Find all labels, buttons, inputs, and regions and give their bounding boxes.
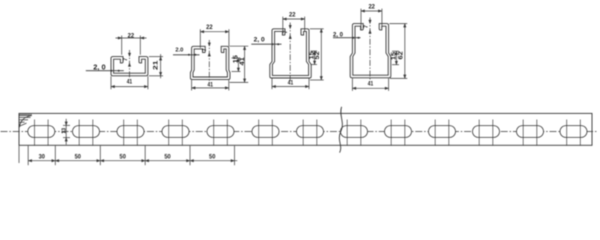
svg-text:2.0: 2.0 xyxy=(175,48,183,54)
svg-text:41: 41 xyxy=(368,82,374,88)
svg-text:52: 52 xyxy=(315,51,321,60)
svg-text:22: 22 xyxy=(206,24,213,31)
svg-text:30: 30 xyxy=(39,154,46,161)
svg-text:7: 7 xyxy=(283,30,289,33)
svg-text:22: 22 xyxy=(128,32,135,39)
svg-text:50: 50 xyxy=(75,154,82,161)
svg-text:7: 7 xyxy=(363,25,369,28)
svg-text:50: 50 xyxy=(164,154,171,161)
svg-text:13: 13 xyxy=(61,128,67,134)
svg-text:41: 41 xyxy=(288,80,294,86)
svg-text:22: 22 xyxy=(368,4,375,11)
svg-text:15: 15 xyxy=(233,54,239,63)
svg-text:15: 15 xyxy=(392,51,398,60)
svg-text:50: 50 xyxy=(209,154,216,161)
svg-text:21: 21 xyxy=(153,60,159,70)
svg-text:2, 0: 2, 0 xyxy=(254,36,266,43)
svg-text:50: 50 xyxy=(120,154,127,161)
svg-text:7: 7 xyxy=(202,48,208,51)
svg-text:2, 0: 2, 0 xyxy=(93,62,105,71)
svg-text:41: 41 xyxy=(208,83,214,89)
svg-text:41: 41 xyxy=(240,57,246,66)
svg-text:22: 22 xyxy=(289,12,296,19)
svg-text:7: 7 xyxy=(123,58,129,61)
svg-text:62: 62 xyxy=(399,51,405,60)
svg-text:41: 41 xyxy=(127,80,133,86)
